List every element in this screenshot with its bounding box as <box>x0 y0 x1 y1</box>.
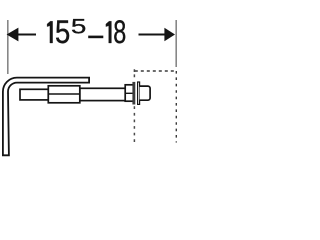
washer 1 solid <box>132 82 135 105</box>
svg-text:8: 8 <box>113 15 126 50</box>
sleeve big box <box>48 86 80 103</box>
dimension text digit 1 (second) <box>106 21 112 43</box>
dimension arrow left <box>7 28 19 42</box>
rod <box>80 88 126 100</box>
right extension line <box>175 20 177 67</box>
sleeve small box <box>20 89 48 100</box>
nut middle line <box>125 92 134 94</box>
svg-text:5: 5 <box>55 15 70 50</box>
dimension line left tail <box>18 34 37 36</box>
wall dashed top edge <box>135 70 177 72</box>
centerline above fitting <box>133 69 135 78</box>
nut <box>125 85 134 101</box>
left extension line <box>7 20 9 74</box>
dimension text digit 1 <box>47 21 53 43</box>
dimension text dash <box>88 36 103 39</box>
dimension line right tail <box>139 34 165 36</box>
cylinder <box>140 86 151 100</box>
wall dashed right edge <box>175 71 177 143</box>
washer 2 outlined <box>138 82 140 104</box>
svg-text:5: 5 <box>71 14 86 38</box>
flush bend tube <box>3 78 89 156</box>
dimension arrow right <box>164 28 175 42</box>
centerline below fitting <box>133 106 135 143</box>
sleeve big box middle line <box>48 93 80 95</box>
